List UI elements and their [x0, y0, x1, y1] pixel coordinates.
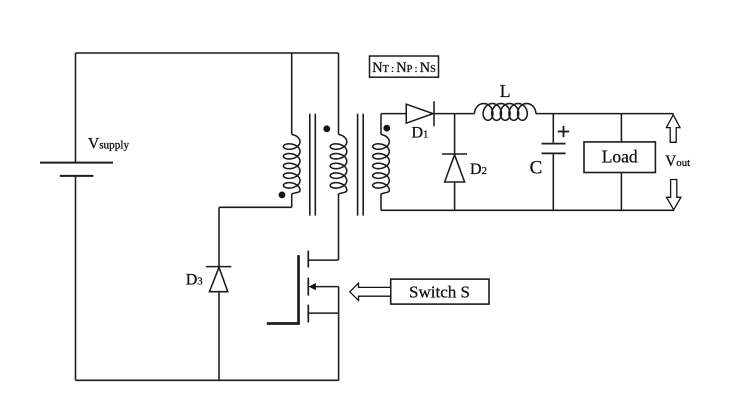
svg-text:NT : NP : NS: NT : NP : NS [372, 60, 436, 76]
svg-text:Load: Load [602, 147, 638, 167]
svg-text:L: L [500, 81, 511, 101]
svg-text:C: C [530, 158, 543, 179]
svg-text:Switch S: Switch S [409, 282, 470, 301]
